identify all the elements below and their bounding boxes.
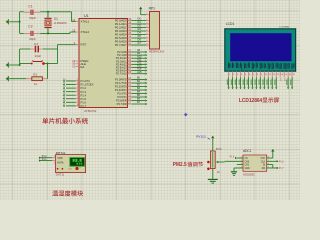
caption temperature humidity module [52,190,58,196]
svg-text:P2.7/A15: P2.7/A15 [116,72,128,76]
pin P0.4 wire to RP1 [128,34,132,36]
svg-text:RV1: RV1 [216,147,222,151]
pin P2.0 wire and net label [128,51,132,53]
svg-text:DO: DO [262,168,266,170]
svg-text:P1.7: P1.7 [279,168,284,170]
pin P0.5 wire to RP1 [128,37,132,39]
wire DI DO join [267,164,273,166]
terminal DATA [39,159,41,161]
ground [6,20,8,23]
svg-text:P3.4/T0: P3.4/T0 [117,92,127,96]
svg-text:39: 39 [128,17,131,21]
svg-text:D6: D6 [138,38,142,42]
svg-text:R1: R1 [33,72,37,76]
crystal X1 [47,12,49,18]
junction dots [207,161,210,164]
svg-text:AT89C52: AT89C52 [84,109,97,113]
pin P1.6 wire and net label [76,101,79,103]
junction [19,64,21,66]
wire CH0 from wiper [225,160,243,162]
wire XTAL1 net [40,11,71,13]
ground [6,63,8,66]
DHT11 pin dots [57,168,59,170]
svg-text:PM2.5: PM2.5 [173,162,187,168]
DHT11 display [70,158,85,167]
pin P2.7 wire and net label [128,73,132,75]
svg-text:37: 37 [128,24,131,28]
wire RST to MCU [58,44,76,46]
svg-text:s: s [80,167,81,169]
power arrow ADC [271,149,274,152]
svg-text:CH1: CH1 [245,165,250,167]
pin P1.5 wire and net label [76,98,79,100]
pin P2.6 wire and net label [128,70,132,72]
svg-text:GND: GND [245,168,250,170]
svg-text:D7: D7 [138,41,142,45]
pin RST [76,44,79,46]
svg-text:35: 35 [128,31,131,35]
wire VCC [267,157,273,159]
svg-text:34: 34 [128,34,131,38]
junction [19,21,21,23]
svg-text:D1: D1 [138,20,142,24]
pin PSEN [76,60,79,62]
svg-text:CLK: CLK [261,161,266,163]
pin XTAL1 [76,21,79,23]
wire CS [237,157,243,159]
capacitor C3 [20,48,31,50]
svg-text:C3: C3 [34,42,38,46]
wire cap bus [19,12,21,34]
pin XTAL2 [76,31,79,33]
svg-text:RP1: RP1 [149,7,156,11]
svg-text:10uF: 10uF [35,54,42,58]
resistor R1 [6,77,8,80]
pin P1.4 wire and net label [76,94,79,96]
wire ground2 [9,64,19,66]
pin P0.6 wire to RP1 [128,41,132,43]
wire XTAL2 net [40,32,70,34]
svg-text:P1.0: P1.0 [279,161,284,163]
svg-text:30pF: 30pF [29,37,36,41]
svg-text:P1.1/T2EX: P1.1/T2EX [81,83,94,87]
svg-text:CS: CS [245,158,249,160]
pin P1.3 wire and net label [76,91,79,93]
svg-text:ADC1: ADC1 [243,149,252,153]
pin P0.7 wire to RP1 [128,44,132,46]
pin P1.0 wire and net label [76,80,79,82]
wire ground to bus [9,21,19,23]
svg-text:EA: EA [81,65,85,69]
pin P3.0 wire and net label [128,79,132,81]
pin P0.3 wire to RP1 [128,30,132,32]
svg-text:D4: D4 [138,31,142,35]
svg-text:DHT11: DHT11 [56,173,65,177]
svg-text:32: 32 [128,41,131,45]
LCD pins and wires [228,71,230,77]
svg-text:D5: D5 [138,34,142,38]
pin P0.1 wire to RP1 [128,23,132,25]
pin P3.7 wire and net label [128,103,132,105]
pin P1.2 wire and net label [76,87,79,89]
svg-text:30pF: 30pF [29,16,36,20]
svg-text:XTAL1: XTAL1 [81,20,90,24]
svg-text:P1.4: P1.4 [81,93,87,97]
svg-text:33: 33 [128,38,131,42]
svg-text:P3.2/INT0: P3.2/INT0 [115,85,128,89]
wire DHT DATA [40,160,52,162]
svg-text:P3.6/WR: P3.6/WR [116,99,127,103]
pin P3.4 wire and net label [128,93,132,95]
svg-text:D0: D0 [138,17,142,21]
svg-text:VCC: VCC [260,158,265,160]
wire reset bus [19,49,21,65]
svg-text:LCD12864: LCD12864 [239,98,263,104]
pin P2.1 wire and net label [128,54,132,56]
svg-text:P1.1: P1.1 [42,159,47,161]
junction node [47,32,49,34]
pin P3.5 wire and net label [128,96,132,98]
svg-text:C2: C2 [28,25,32,29]
pin P3.3 wire and net label [128,89,132,91]
svg-text:RST: RST [81,43,87,47]
svg-text:P1.6: P1.6 [81,100,87,104]
wire CH1 [237,164,243,166]
caption MCU minimal system [42,118,48,124]
svg-text:D3: D3 [138,27,142,31]
pin P0.0 wire to RP1 [128,20,132,22]
wire to RP1 pin1 [141,14,146,16]
svg-text:P1.7: P1.7 [81,104,87,108]
svg-text:36: 36 [128,27,131,31]
svg-text:CH0: CH0 [245,161,250,163]
svg-text:ADC0832: ADC0832 [243,172,255,176]
wire DO net [267,167,277,169]
svg-text:P1.2: P1.2 [81,86,87,90]
svg-text:VDD: VDD [57,157,62,160]
pin P2.2 wire and net label [128,57,132,59]
wire CLK net [267,160,277,162]
svg-text:XTAL2: XTAL2 [81,30,90,34]
pin P3.6 wire and net label [128,100,132,102]
svg-text:38: 38 [128,20,131,24]
svg-text:P3.7/RD: P3.7/RD [117,102,127,106]
pin P1.7 wire and net label [76,105,79,107]
svg-text:P3.5/T1: P3.5/T1 [117,95,127,99]
pin P2.5 wire and net label [128,67,132,69]
pin P3.2 wire and net label [128,86,132,88]
svg-text:P1.0/T2: P1.0/T2 [81,79,91,83]
svg-text:DATA: DATA [57,161,64,164]
svg-text:DI: DI [263,165,266,167]
reset button [20,63,31,65]
pin EA [76,66,79,68]
pin P3.1 wire and net label [128,82,132,84]
pin P2.3 wire and net label [128,60,132,62]
svg-text:P1.5: P1.5 [81,97,87,101]
capacitor C2 [20,32,24,34]
junction [47,63,49,65]
power arrow RV1 [211,136,214,139]
svg-text:P1.4: P1.4 [230,156,235,158]
ground ADC [231,171,237,172]
svg-text:RESPACK-8: RESPACK-8 [149,50,165,54]
svg-text:P3.0/RXD: P3.0/RXD [115,78,127,82]
svg-text:X1: X1 [54,17,58,21]
LCD screen [230,33,291,61]
svg-text:P3.1/TXD: P3.1/TXD [115,81,127,85]
wire GND [234,167,243,169]
ground [208,179,218,180]
power +5V arrow [139,7,142,10]
pin ALE [76,63,79,65]
svg-text:1k: 1k [217,170,221,174]
svg-text:RV1(2): RV1(2) [196,134,205,138]
wire R1 to button net [47,64,49,79]
svg-text:11.0592MHz: 11.0592MHz [54,23,68,25]
LCD pin names row [227,63,230,68]
capacitor C1 [20,11,24,13]
svg-text:D2: D2 [138,24,142,28]
origin marker [184,113,188,117]
svg-text:P1.3: P1.3 [81,90,87,94]
svg-text:P1.0: P1.0 [42,156,47,158]
wire RST riser [57,45,59,64]
svg-text:P3.3/INT1: P3.3/INT1 [115,88,128,92]
junction node [47,11,49,13]
pin P1.1 wire and net label [76,84,79,86]
terminal VDD [39,157,41,159]
wiper arrow [218,161,225,163]
pin P2.4 wire and net label [128,63,132,65]
svg-text:LCD1: LCD1 [226,22,235,26]
wire DHT VDD [40,157,52,159]
wire pot to ground [212,169,214,179]
svg-text:U1: U1 [84,14,89,18]
svg-text:C1: C1 [28,5,32,9]
svg-text:A15: A15 [137,71,142,74]
pin P0.2 wire to RP1 [128,27,132,29]
svg-text:P0.7/AD7: P0.7/AD7 [115,43,127,47]
